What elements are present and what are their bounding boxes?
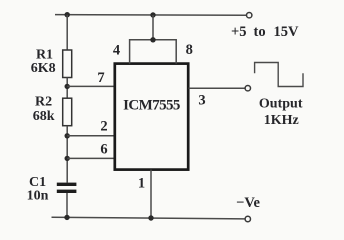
wire pin 3 output [189,87,245,89]
square wave symbol [255,63,303,87]
capacitor C1 [57,183,77,186]
wire left vertical rail to R1 [66,15,68,51]
svg-text:ICM7555: ICM7555 [123,98,180,114]
wire R2 bottom down to C1 [66,126,68,183]
wire bottom rail [52,217,245,219]
node junction pin1/rail [148,215,153,220]
svg-text:6K8: 6K8 [31,61,56,76]
node junction strap [150,37,155,42]
svg-text:R2: R2 [35,95,52,110]
svg-text:−Ve: −Ve [236,195,260,211]
svg-text:7: 7 [97,70,104,86]
node junction C1/rail [64,215,69,220]
resistor R2 [63,98,72,126]
svg-text:Output: Output [259,97,303,112]
svg-text:15V: 15V [274,24,300,40]
svg-text:6: 6 [100,141,107,157]
svg-text:1KHz: 1KHz [264,113,299,128]
node junction top-left [65,12,70,17]
svg-text:2: 2 [100,118,107,134]
node junction top-center [150,12,155,17]
wire pins 4-8 strap [130,40,177,64]
wire R1 bottom to node A [66,78,68,99]
terminal +V [247,13,252,18]
wire supply stub to strap [152,15,154,40]
terminal output [245,86,250,91]
wire pin 2 [67,135,115,137]
wire pin 1 to bottom rail [150,170,152,218]
wire pin 6 [67,157,115,159]
svg-text:3: 3 [198,92,205,108]
node junction pin2 [65,133,70,138]
svg-text:8: 8 [186,42,193,58]
wire C1 to bottom rail [66,193,68,218]
svg-text:10n: 10n [27,189,49,204]
op IC box ICM7555 U1 [115,64,188,170]
node A junction R1/R2/pin7 [65,84,70,89]
wire top supply rail [55,14,246,17]
wire pin 7 [67,85,115,87]
resistor R1 [63,50,72,78]
svg-text:4: 4 [113,43,120,59]
node junction pin6 [65,156,70,161]
terminal -Ve [245,216,250,221]
svg-text:68k: 68k [33,109,55,124]
svg-text:+5: +5 [231,24,247,40]
svg-text:to: to [254,24,266,40]
svg-text:1: 1 [138,176,145,192]
